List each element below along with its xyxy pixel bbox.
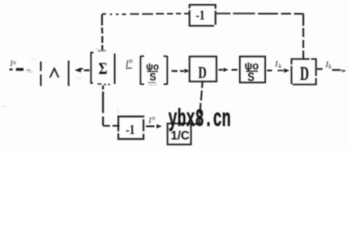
node label In (bottom) (148, 115, 156, 125)
delay box D2 (292, 59, 317, 85)
svg-text:-1: -1 (196, 7, 205, 22)
node label Ik (before D2) (274, 59, 282, 71)
svg-text:-1: -1 (126, 122, 135, 137)
svg-text:n: n (13, 61, 16, 67)
wire top horizontal dash-dot to -1 box (102, 13, 189, 16)
svg-text:k: k (329, 64, 332, 71)
wire quantizer1 to D1 (arrow) (172, 69, 190, 73)
svg-text:n: n (129, 57, 133, 65)
wire sigma top vertical (feedback up) (101, 15, 103, 51)
wire sigma bottom vertical (feedback down) (102, 86, 104, 126)
wire box1 to sigma (arrow) (75, 68, 90, 73)
svg-text:S: S (150, 72, 157, 84)
divider box 1/C (168, 124, 192, 145)
svg-text:D: D (198, 64, 206, 83)
rectifier box |A| (41, 61, 69, 87)
node label Ik (output) (325, 59, 332, 71)
wire corner to -1 bottom box (103, 125, 120, 127)
svg-text:D: D (300, 62, 309, 85)
wire quantizer2 to D2 (arrow) (267, 68, 290, 72)
svg-text:ybx8.cn: ybx8.cn (168, 107, 231, 135)
wire -1 box to top-right corner (217, 13, 304, 15)
svg-text:S: S (248, 72, 255, 85)
inverter box -1 (bottom) (118, 117, 143, 140)
svg-text:k: k (279, 63, 282, 70)
scan smudges (noise) (2, 49, 344, 113)
delay box D1 (190, 57, 217, 83)
summer box sigma (91, 51, 115, 85)
svg-text:Σ: Σ (99, 59, 108, 78)
wire output arrow (317, 69, 346, 72)
node label In (input) (9, 59, 16, 68)
wire -1 to 1/C box (arrow) (146, 124, 162, 128)
wire input arrow (10, 69, 13, 71)
quantizer box [psi0/S] #1 (141, 56, 168, 84)
wire down into D2 top (302, 14, 304, 59)
svg-text:n: n (152, 115, 155, 122)
node label In' (sigma output) (125, 57, 134, 69)
wire D1 bottom to 1/C box (192, 82, 203, 124)
inverter box -1 (top) (190, 5, 216, 26)
wire D1 to quantizer2 (arrow) (219, 68, 238, 72)
quantizer box psi0/S #2 (240, 57, 265, 85)
